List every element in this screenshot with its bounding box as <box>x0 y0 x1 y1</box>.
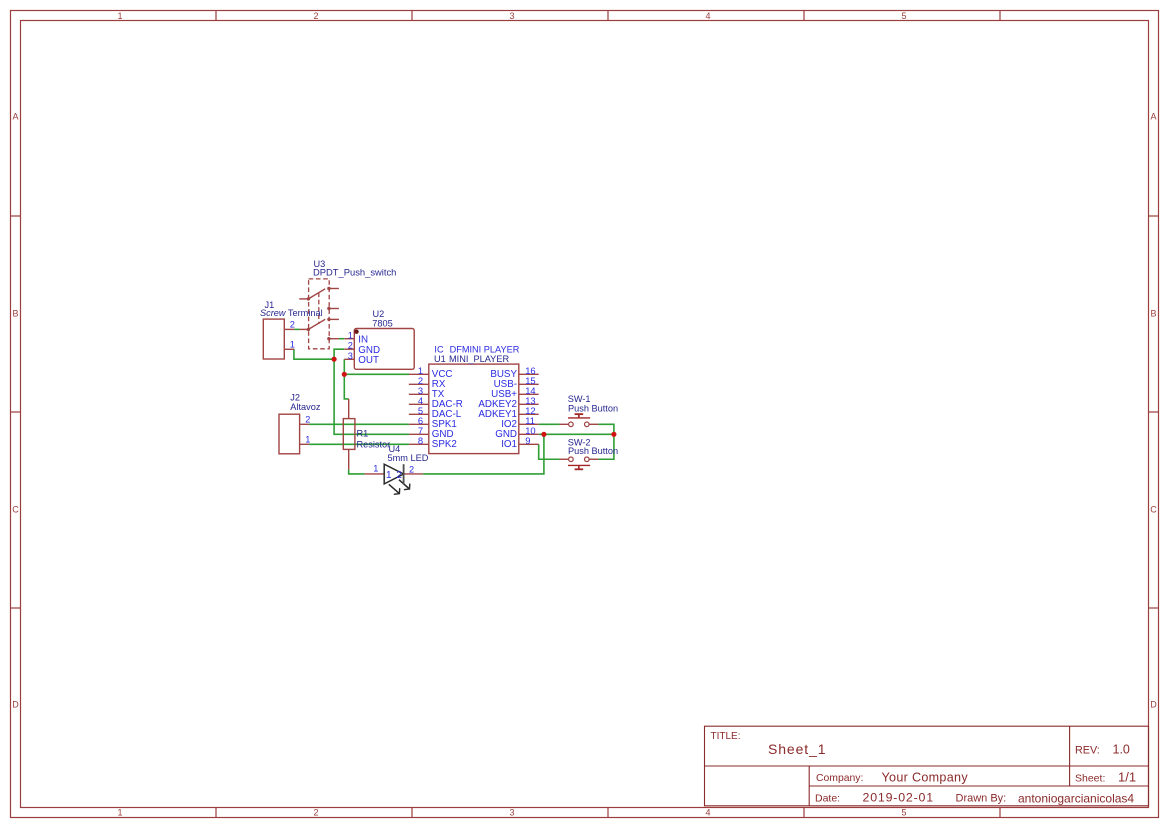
svg-text:1: 1 <box>305 435 310 445</box>
svg-text:Push Button: Push Button <box>568 403 618 413</box>
svg-text:2: 2 <box>313 11 318 21</box>
svg-text:B: B <box>12 308 18 318</box>
svg-text:2: 2 <box>290 320 295 330</box>
svg-text:U1: U1 <box>434 354 446 364</box>
svg-text:REV:: REV: <box>1075 744 1100 756</box>
svg-text:4: 4 <box>705 11 710 21</box>
svg-text:Company:: Company: <box>816 773 863 784</box>
svg-text:Your Company: Your Company <box>882 771 969 785</box>
svg-text:1.0: 1.0 <box>1113 743 1130 757</box>
svg-text:R1: R1 <box>357 429 369 439</box>
svg-text:IN: IN <box>358 334 368 345</box>
svg-text:9: 9 <box>525 435 530 446</box>
svg-text:3: 3 <box>509 808 514 818</box>
svg-text:Drawn By:: Drawn By: <box>956 793 1007 805</box>
svg-text:1: 1 <box>290 340 295 350</box>
svg-text:1: 1 <box>117 11 122 21</box>
svg-text:D: D <box>1150 699 1157 709</box>
svg-text:7805: 7805 <box>372 318 392 328</box>
svg-text:1: 1 <box>348 330 353 340</box>
svg-text:3: 3 <box>348 351 353 361</box>
svg-text:MINI_PLAYER: MINI_PLAYER <box>449 354 509 364</box>
svg-text:1: 1 <box>117 808 122 818</box>
svg-text:C: C <box>1150 504 1157 514</box>
svg-text:D: D <box>12 699 19 709</box>
svg-text:B: B <box>1150 308 1156 318</box>
svg-text:5: 5 <box>901 808 906 818</box>
svg-text:OUT: OUT <box>358 355 379 366</box>
svg-text:IO1: IO1 <box>501 439 517 450</box>
svg-text:SPK2: SPK2 <box>432 439 457 450</box>
svg-text:C: C <box>12 504 19 514</box>
svg-text:2: 2 <box>348 341 353 351</box>
svg-text:2: 2 <box>409 464 414 474</box>
svg-text:Sheet_1: Sheet_1 <box>768 741 826 757</box>
svg-text:1: 1 <box>386 470 392 481</box>
svg-text:3: 3 <box>509 11 514 21</box>
svg-text:DPDT_Push_switch: DPDT_Push_switch <box>313 266 396 277</box>
svg-text:2: 2 <box>396 470 402 481</box>
svg-text:5: 5 <box>901 11 906 21</box>
svg-text:Altavoz: Altavoz <box>290 402 321 412</box>
svg-text:Screw Terminal: Screw Terminal <box>260 308 323 318</box>
svg-text:antoniogarcianicolas4: antoniogarcianicolas4 <box>1018 792 1134 806</box>
svg-text:Date:: Date: <box>815 793 840 805</box>
svg-text:2019-02-01: 2019-02-01 <box>863 791 934 805</box>
svg-text:8: 8 <box>418 435 423 446</box>
svg-text:2: 2 <box>313 808 318 818</box>
svg-text:Push Button: Push Button <box>568 446 618 456</box>
svg-text:A: A <box>12 111 18 121</box>
svg-text:2: 2 <box>305 415 310 425</box>
svg-text:Resistor: Resistor <box>357 440 391 450</box>
svg-text:Sheet:: Sheet: <box>1075 773 1105 785</box>
svg-text:5mm LED: 5mm LED <box>388 453 429 463</box>
svg-text:1: 1 <box>373 464 378 474</box>
svg-text:TITLE:: TITLE: <box>711 731 741 742</box>
svg-text:4: 4 <box>705 808 710 818</box>
svg-text:A: A <box>1150 111 1156 121</box>
svg-text:1/1: 1/1 <box>1118 770 1136 785</box>
